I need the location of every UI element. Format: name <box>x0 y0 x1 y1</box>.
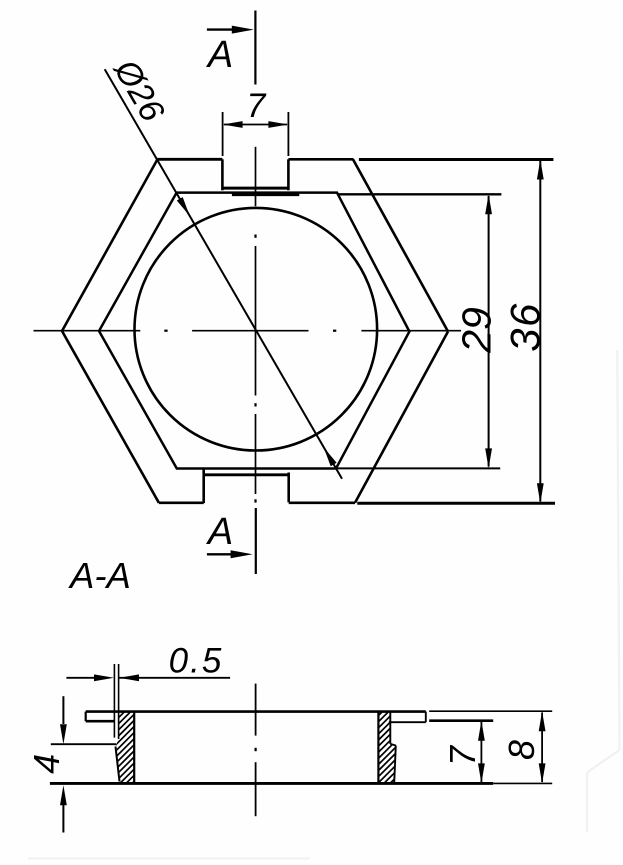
leader line dia 26 <box>105 69 342 479</box>
dimension 8 <box>429 711 552 783</box>
svg-text:8: 8 <box>501 740 542 760</box>
dimension 4 <box>51 696 117 832</box>
section: left flange tab <box>86 712 115 722</box>
dimension 36 <box>357 160 555 504</box>
dimension 7 section <box>429 721 493 784</box>
dimension 29 <box>336 194 501 468</box>
section: left wall outline <box>114 664 134 783</box>
svg-text:A: A <box>206 34 233 76</box>
section: right wall hatch <box>296 700 486 792</box>
section: bottom face line <box>50 782 552 785</box>
section line A top with arrow <box>207 11 256 85</box>
svg-text:A-A: A-A <box>68 555 131 596</box>
section: right flange tab <box>389 712 426 723</box>
svg-text:29: 29 <box>454 307 500 354</box>
outer hexagon (36 across flats) top view <box>62 159 448 503</box>
svg-text:A: A <box>206 511 233 553</box>
bottom slot edges <box>204 469 290 504</box>
section: right wall outline <box>378 712 395 784</box>
section: left wall hatch <box>32 700 228 792</box>
vertical centerline <box>255 147 257 503</box>
svg-text:7: 7 <box>442 744 483 766</box>
horizontal centerline <box>34 330 462 332</box>
section: vertical centerline <box>255 684 257 817</box>
svg-text:36: 36 <box>502 302 549 352</box>
inner hexagon (29 across flats, chamfer) <box>99 193 409 469</box>
section: top face line <box>86 710 426 713</box>
svg-text:7: 7 <box>247 87 267 125</box>
bore circle dia 26 <box>135 208 378 451</box>
section line A bottom with arrow <box>207 508 256 574</box>
svg-text:0.5: 0.5 <box>169 642 224 681</box>
scan artifact faint edge <box>28 350 620 859</box>
dimension 0.5 <box>66 674 230 681</box>
dimension 7 top view <box>223 112 289 156</box>
svg-text:4: 4 <box>26 754 67 774</box>
top slot (width 7) edges <box>222 159 299 194</box>
